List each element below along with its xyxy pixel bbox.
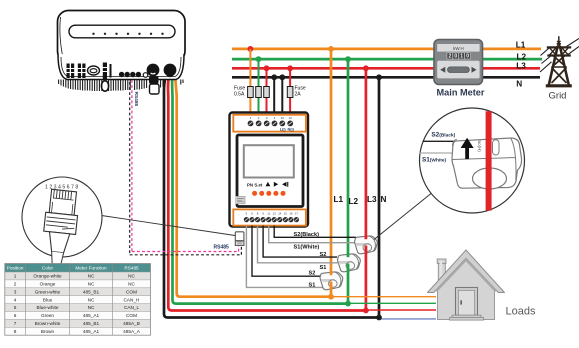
wire RS485 cable black dashed: [130, 82, 242, 255]
energy meter LCD screen: [244, 145, 294, 177]
wire meter tap red aux vertical: [289, 68, 291, 120]
svg-text:2: 2: [14, 282, 17, 287]
svg-text:12345678: 12345678: [45, 185, 80, 191]
energy meter U1 outer case: [230, 113, 309, 227]
fuse F3 body: [264, 87, 270, 98]
callout circle RJ45: [22, 177, 102, 257]
wire CT3 S1 white from terminal 5: [269, 226, 355, 243]
svg-text:S2(Black): S2(Black): [294, 232, 320, 238]
svg-text:Brown: Brown: [41, 329, 55, 334]
grid wire stubs left: [540, 47, 553, 72]
node junction dot red on orange bus (meter tap): [248, 46, 254, 52]
svg-text:485_B1: 485_B1: [83, 289, 100, 294]
energy meter buttons: [266, 182, 289, 187]
wire thin orange to house: [331, 296, 436, 298]
svg-text:0: 0: [454, 54, 457, 60]
svg-text:CAN_H: CAN_H: [124, 297, 140, 302]
fuse F1 0.5A body: [248, 87, 254, 98]
svg-text:485A_B: 485A_B: [123, 321, 140, 326]
svg-text:COM: COM: [126, 289, 137, 294]
label L(|) N(|): [280, 128, 295, 132]
svg-text:7: 7: [14, 321, 17, 326]
svg-text:Brown-white: Brown-white: [35, 321, 61, 326]
inverter AC connector 2 (wires exit): [164, 64, 177, 78]
callout circle CT detail: [420, 108, 525, 213]
svg-text:L3: L3: [367, 195, 377, 204]
house body with gable: [438, 256, 495, 320]
svg-text:Green-white: Green-white: [35, 289, 61, 294]
wire CT3 S2 black from terminal 6: [274, 226, 356, 238]
svg-text:L2: L2: [349, 197, 359, 206]
svg-text:Blue: Blue: [43, 297, 53, 302]
callout line from CT circle to top CT: [374, 193, 431, 239]
svg-text:12: 12: [289, 116, 293, 120]
wire L2 vertical drop: [347, 59, 350, 304]
svg-text:S2: S2: [309, 271, 316, 277]
svg-text:485_A1: 485_A1: [83, 329, 100, 334]
node junction dot green on green bus: [256, 56, 262, 62]
house door: [450, 288, 484, 321]
inverter DC connector pair 1: [66, 64, 75, 79]
node junction dot green L2: [345, 56, 351, 62]
node junction dot black t4: [271, 74, 277, 80]
svg-text:L1: L1: [334, 195, 344, 204]
node junction dot black t5: [279, 74, 285, 80]
svg-text:NC: NC: [88, 305, 95, 310]
CT detail pigtail S2 black: [423, 140, 454, 142]
energy meter face plate: [237, 135, 303, 207]
svg-text:Orange: Orange: [40, 282, 56, 287]
CT detail pigtail S1 white: [420, 152, 453, 154]
energy meter model tag: [236, 196, 245, 203]
svg-text:S1(White): S1(White): [294, 245, 320, 251]
svg-text:L1: L1: [516, 40, 526, 49]
svg-text:NC: NC: [88, 297, 95, 302]
wire inverter AC black (to bottom bus): [164, 73, 379, 318]
svg-text:Loads: Loads: [506, 306, 536, 318]
energy meter bottom pin numbers: [246, 212, 299, 216]
CT detail body: [452, 138, 522, 189]
svg-text:NC: NC: [88, 282, 95, 287]
node junction dot red aux supply: [287, 65, 293, 71]
svg-text:1: 1: [14, 274, 17, 279]
svg-text:Iao(H): Iao(H): [477, 140, 482, 153]
wire thin blue neutral to house: [379, 318, 436, 320]
inverter round ports row: [119, 72, 148, 77]
svg-text:17: 17: [295, 212, 299, 216]
svg-text:N(|): N(|): [288, 128, 295, 132]
house chimney: [437, 259, 446, 281]
svg-text:RS485: RS485: [214, 245, 230, 251]
inverter bottom panel: [58, 54, 184, 80]
wire CT2 S2 black from terminal 4: [263, 226, 337, 258]
wire meter tap green vertical: [258, 59, 260, 120]
svg-text:S1(White): S1(White): [422, 156, 446, 163]
wire CT1 S1 white (gray) from terminal 1: [246, 226, 322, 288]
node junction dot green bottom: [345, 301, 351, 307]
CT clamp 2 on L2 (middle): [338, 254, 361, 272]
svg-text:485_A1: 485_A1: [83, 313, 100, 318]
svg-text:11: 11: [267, 212, 270, 216]
CT detail direction arrow: [461, 138, 474, 159]
main meter body: [434, 40, 483, 85]
svg-text:Position: Position: [7, 265, 24, 270]
wire N bus (black): [232, 76, 540, 79]
svg-text:6: 6: [14, 313, 17, 318]
svg-text:15: 15: [284, 212, 288, 216]
svg-text:0.5A: 0.5A: [234, 92, 245, 98]
svg-text:L(|): L(|): [280, 128, 287, 132]
node junction dot black bottom: [376, 315, 382, 321]
wire L2 bus (green): [232, 58, 542, 61]
svg-text:Blue-white: Blue-white: [37, 305, 59, 310]
fuse F4 2A body: [287, 87, 293, 98]
energy meter top terminal strip: [233, 115, 306, 132]
wire thin red to house: [366, 309, 436, 311]
svg-text:8: 8: [14, 329, 17, 334]
svg-text:10: 10: [281, 116, 285, 120]
CT detail primary red wire: [486, 111, 492, 210]
node junction dot orange bottom: [328, 294, 334, 300]
inverter heatsink fins: [59, 80, 183, 92]
svg-text:Meter Function: Meter Function: [75, 265, 107, 270]
svg-text:S1: S1: [309, 282, 316, 288]
grid pylon: [546, 36, 572, 86]
svg-text:3: 3: [14, 289, 17, 294]
svg-text:L3: L3: [516, 62, 526, 71]
callout line from RJ45 circle to connector: [102, 216, 236, 236]
grid wire stubs right: [567, 39, 579, 55]
wire meter tap orange vertical: [249, 49, 251, 121]
inverter AC connector 1: [147, 64, 160, 77]
svg-text:NC: NC: [128, 274, 135, 279]
node junction dot orange L1: [328, 46, 334, 52]
node junction dot red L3: [363, 65, 369, 71]
svg-text:1: 1: [460, 54, 463, 60]
svg-text:Main Meter: Main Meter: [437, 88, 485, 98]
svg-text:S2(Black): S2(Black): [431, 132, 455, 139]
house roof band: [428, 250, 505, 293]
svg-text:L2: L2: [517, 53, 527, 62]
wire L3 vertical drop: [365, 68, 368, 310]
energy meter LED row: [252, 191, 285, 196]
svg-text:N: N: [516, 80, 522, 89]
svg-text:kW.H: kW.H: [453, 46, 464, 51]
wire meter tap black t5 vertical: [281, 77, 283, 120]
inverter vent slot: [69, 25, 175, 38]
RS485 pinout table: [5, 264, 151, 336]
energy meter top terminal screws: [248, 121, 294, 127]
svg-text:485A_A: 485A_A: [123, 329, 141, 334]
svg-text:COM: COM: [126, 313, 137, 318]
energy meter bottom terminal screws: [244, 217, 299, 222]
svg-text:CAN_L: CAN_L: [124, 305, 140, 310]
svg-text:Grid: Grid: [549, 91, 567, 102]
wire meter tap red vertical: [266, 68, 268, 120]
wire inverter AC orange: [175, 73, 331, 297]
wire CT1 S2 black from terminal 2: [252, 226, 321, 277]
fuse F2 body: [256, 87, 262, 98]
wire meter tap black t4 vertical: [273, 77, 275, 120]
wire L3 bus (red): [232, 67, 540, 70]
wire RS485 cable magenta dashed: [132, 80, 239, 252]
CT clamp 3 on L3 (top): [355, 236, 378, 254]
svg-text:NC: NC: [88, 274, 95, 279]
svg-text:RS485: RS485: [133, 92, 139, 107]
svg-text:16: 16: [289, 212, 293, 216]
svg-text:Orange-white: Orange-white: [33, 274, 62, 279]
energy meter top terminal pin numbers: [250, 116, 293, 120]
wire CT2 S1 white from terminal 3: [258, 226, 340, 263]
RS485 adapter connector at meter: [235, 232, 244, 246]
svg-text:S1: S1: [320, 265, 327, 271]
node junction dot red bottom: [363, 308, 369, 314]
node junction dot black N: [376, 74, 382, 80]
wire inverter AC red: [168, 74, 366, 311]
svg-text:0: 0: [466, 54, 469, 60]
svg-text:N: N: [381, 195, 387, 204]
svg-text:Green: Green: [41, 313, 54, 318]
svg-text:485_B1: 485_B1: [83, 321, 100, 326]
wire N vertical drop: [378, 77, 381, 317]
inverter DC connector pair 2: [77, 64, 86, 79]
inverter padlock ring: [101, 81, 108, 91]
inverter DC switch oval: [88, 66, 100, 75]
wire L1 vertical drop to loads: [330, 49, 333, 297]
inverter com box below: [149, 76, 159, 94]
svg-text:Color: Color: [42, 265, 54, 270]
svg-text:PN S.et: PN S.et: [247, 183, 263, 188]
label Fuse 2A: [295, 86, 306, 98]
inverter body: [58, 11, 186, 63]
RJ45 plug drawing: [40, 185, 80, 268]
svg-text:5: 5: [14, 305, 17, 310]
label Fuse 0.5A: [234, 86, 245, 98]
svg-text:4: 4: [14, 297, 17, 302]
svg-text:13: 13: [273, 212, 277, 216]
svg-text:S2: S2: [320, 252, 327, 258]
svg-text:2: 2: [449, 54, 452, 60]
svg-text:14: 14: [278, 212, 282, 216]
node junction dot red on red bus: [264, 65, 270, 71]
energy meter bottom terminal strip: [233, 209, 306, 225]
wire inverter AC green: [172, 74, 348, 304]
CT clamp 1 on L1 (bottom): [320, 272, 343, 290]
svg-text:2A: 2A: [295, 92, 302, 98]
svg-text:RS485: RS485: [124, 265, 139, 270]
inverter middle connector bar: [102, 63, 111, 80]
wire thin green to house: [348, 302, 436, 304]
wire L1 bus (orange, top): [232, 48, 541, 51]
svg-text:NC: NC: [128, 282, 135, 287]
